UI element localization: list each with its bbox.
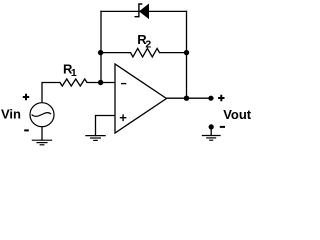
zener diode xyxy=(135,4,149,18)
svg-text:Vout: Vout xyxy=(223,107,252,122)
wire R2 right lead xyxy=(160,52,187,54)
label R2 xyxy=(137,32,151,50)
wire Vout minus terminal to ground xyxy=(210,127,212,135)
node Vout plus terminal xyxy=(208,96,213,101)
junction R2 left xyxy=(98,50,103,55)
wire left feedback vertical xyxy=(100,11,102,82)
svg-text:1: 1 xyxy=(71,67,77,79)
label Vin minus xyxy=(24,129,29,131)
ground (Vout minus) xyxy=(202,136,221,141)
source Vin xyxy=(30,103,54,127)
wire top feedback xyxy=(101,10,187,12)
wire R2 left lead xyxy=(101,52,131,54)
op-amp U1 xyxy=(115,64,167,133)
resistor R2 xyxy=(131,48,160,57)
ground (Vin source) xyxy=(32,140,52,145)
svg-text:2: 2 xyxy=(145,38,151,50)
wire noninverting input to ground xyxy=(96,116,116,136)
wire R1 to inverting input xyxy=(87,82,115,84)
wire op-amp output xyxy=(167,97,214,99)
junction output xyxy=(184,96,189,101)
resistor R1 xyxy=(60,79,87,86)
junction R2 right xyxy=(184,50,189,55)
label R1 xyxy=(63,61,77,79)
wire Vin source to ground xyxy=(41,126,43,140)
wire Vin to R1 xyxy=(42,83,60,103)
wire right feedback vertical xyxy=(186,11,188,98)
label Vout minus sign xyxy=(220,126,225,128)
ground (noninverting input) xyxy=(85,136,105,141)
label Vout plus xyxy=(218,95,224,101)
svg-text:Vin: Vin xyxy=(1,106,21,121)
label Vin plus xyxy=(23,94,29,100)
node Vout minus terminal xyxy=(209,124,214,129)
junction inverting input xyxy=(98,80,103,85)
